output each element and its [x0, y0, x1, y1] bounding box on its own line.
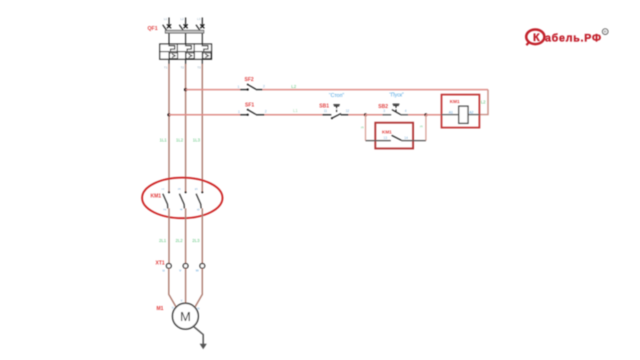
- SB2 plunger head: [393, 104, 400, 105]
- QF1 release box divider 1: [176, 44, 178, 59]
- ground wire from motor: [193, 326, 203, 344]
- svg-text:T3: T3: [197, 66, 201, 70]
- QF1 thermal release pole 2: [186, 44, 192, 52]
- SF1 blade: [248, 110, 256, 115]
- SB1 blade: [332, 114, 341, 119]
- logo registered trademark symbol: [602, 29, 608, 35]
- QF1 pole 2 wire inside box: [185, 52, 187, 60]
- svg-text:1: 1: [161, 188, 165, 190]
- svg-text:12: 12: [346, 109, 350, 113]
- self-hold branch right vertical wire: [425, 115, 427, 141]
- control wire SB2 to node D: [408, 114, 426, 116]
- QF1 release box divider 2: [193, 44, 195, 59]
- svg-text:SF1: SF1: [245, 103, 254, 109]
- control wire SF1 to SB1: [265, 114, 323, 116]
- QF1 magnetic release box pole 2: [186, 53, 194, 59]
- svg-text:2L1: 2L1: [159, 238, 167, 243]
- svg-text:XT1: XT1: [156, 261, 165, 267]
- node junction on phase B feeding coil line: [184, 88, 187, 91]
- svg-text:v: v: [181, 299, 183, 303]
- svg-text:w: w: [196, 268, 199, 273]
- node D junction dot: [424, 113, 427, 116]
- XT1 terminal 2: [183, 264, 188, 269]
- coil supply wire SF2 to right bend: [263, 89, 488, 91]
- highlight box around KM1 auxiliary contact: [375, 123, 413, 149]
- svg-text:1: 1: [238, 85, 240, 89]
- svg-text:14: 14: [404, 136, 408, 140]
- wire phase C vertical from QF1 to KM1 contact: [201, 64, 203, 192]
- svg-text:3: 3: [383, 109, 385, 113]
- QF1 magnetic release box pole 1: [169, 53, 177, 59]
- QF1 pole 1 contact x mark: [167, 24, 171, 28]
- SB2 left lead: [382, 114, 391, 116]
- svg-text:R: R: [604, 29, 607, 34]
- svg-text:1L2: 1L2: [176, 138, 184, 143]
- svg-text:1: 1: [238, 110, 240, 114]
- QF1 pole 1 blade: [163, 25, 170, 34]
- contactor coil KM1 body: [459, 106, 468, 123]
- wire phase A from XT1 to motor: [169, 268, 176, 306]
- QF1 pole 2 top stub: [185, 18, 187, 26]
- aux contact left lead: [366, 140, 391, 142]
- QF1 pole 1 top stub: [168, 18, 170, 26]
- QF1 pole 3 blade: [196, 25, 203, 34]
- logo Kabel.rf swirl ring: [526, 30, 544, 46]
- SB1 left lead: [322, 114, 331, 116]
- svg-text:T1: T1: [164, 66, 168, 70]
- svg-text:К: К: [533, 32, 540, 44]
- QF1 pole 2 contact x mark: [184, 24, 188, 28]
- QF1 pole 1 wire inside box: [168, 52, 170, 60]
- QF1 thermal release pole 1: [169, 44, 175, 52]
- wire phase B from KM1 contact to XT1: [185, 208, 187, 263]
- svg-text:4: 4: [180, 209, 184, 211]
- svg-text:L2: L2: [291, 84, 296, 89]
- svg-text:3: 3: [178, 188, 182, 190]
- svg-text:KM1: KM1: [382, 129, 392, 134]
- svg-text:M: M: [180, 309, 191, 324]
- SF2 left lead: [240, 89, 248, 91]
- aux contact blade: [392, 135, 402, 140]
- SF2 blade: [248, 85, 256, 90]
- SF1 blade tip dot: [247, 109, 249, 111]
- wire phase A from KM1 contact to XT1: [168, 208, 170, 263]
- QF1 pole 3 bottom stub: [201, 59, 203, 64]
- QF1 pole 3 contact x mark: [200, 24, 204, 28]
- svg-text:KM1: KM1: [450, 99, 460, 104]
- svg-text:11: 11: [324, 109, 328, 113]
- highlight box around contactor coil KM1: [442, 95, 480, 128]
- SF2 right lead: [256, 89, 263, 91]
- SB1 plunger head: [333, 105, 339, 106]
- svg-text:L1: L1: [164, 17, 168, 21]
- svg-text:абель.РФ: абель.РФ: [545, 32, 601, 44]
- svg-text:KM1: KM1: [151, 194, 162, 200]
- coil supply wire from node B to SF2: [186, 89, 240, 91]
- SF1 left lead: [240, 114, 248, 116]
- coil right lead: [468, 114, 479, 116]
- svg-text:L2: L2: [481, 99, 486, 104]
- SB2 right lead: [401, 114, 409, 116]
- wire phase C from KM1 contact to XT1: [201, 208, 203, 263]
- svg-text:SF2: SF2: [245, 77, 254, 83]
- KM1 main contact pole 1 blade: [163, 194, 168, 209]
- svg-text:L2: L2: [180, 17, 184, 21]
- node junction on phase A feeding control line: [167, 113, 170, 116]
- svg-text:3: 3: [360, 127, 364, 129]
- QF1 magnetic release arrow pole 3: [205, 54, 208, 57]
- QF1 pole 3 wire inside box: [201, 52, 203, 60]
- wire phase C from XT1 to motor: [195, 268, 202, 306]
- QF1 magnetic release arrow pole 1: [172, 54, 175, 57]
- SF2 fixed contact dot: [247, 88, 249, 90]
- QF1 release box middle line: [160, 51, 212, 53]
- svg-text:1L3: 1L3: [193, 138, 201, 143]
- control wire from node A to SF1: [169, 114, 240, 116]
- svg-text:L1: L1: [293, 108, 298, 113]
- QF1 pole 2 blade: [179, 25, 186, 34]
- QF1 thermal release pole 3: [202, 44, 208, 52]
- svg-text:M1: M1: [157, 306, 164, 312]
- svg-text:2: 2: [265, 110, 267, 114]
- node C junction dot: [364, 113, 367, 116]
- svg-text:T2: T2: [181, 66, 185, 70]
- svg-text:5: 5: [194, 188, 198, 190]
- aux contact right lead: [401, 140, 426, 142]
- QF1 pole 2 bottom stub: [185, 59, 187, 64]
- svg-text:QF1: QF1: [148, 26, 158, 32]
- SF2 blade tip dot: [247, 84, 249, 86]
- QF1 pole 1 wire to box: [168, 34, 170, 44]
- XT1 terminal 1: [166, 264, 171, 269]
- QF1 pole 3 wire to box: [201, 34, 203, 44]
- KM1 main contact pole 1 fixed dot: [168, 191, 170, 193]
- control wire node D to coil box: [426, 114, 442, 116]
- KM1 main contact pole 2 fixed dot: [185, 191, 187, 193]
- self-hold branch left vertical wire: [365, 115, 367, 141]
- KM1 main contact pole 3 blade: [196, 194, 201, 209]
- svg-text:A1: A1: [449, 110, 453, 114]
- coil supply wire right vertical drop: [479, 90, 488, 115]
- SF1 fixed contact dot: [247, 114, 249, 116]
- svg-text:w: w: [197, 307, 200, 311]
- motor M1 body: [173, 303, 199, 329]
- svg-text:A2: A2: [469, 110, 473, 114]
- svg-text:6: 6: [196, 209, 200, 211]
- svg-text:1L1: 1L1: [160, 138, 168, 143]
- svg-text:3: 3: [419, 126, 423, 128]
- wire phase B from XT1 to motor: [185, 268, 187, 303]
- SB2 plunger stem: [395, 106, 397, 113]
- SB2 blade: [392, 110, 401, 115]
- control wire node C to SB2: [366, 114, 383, 116]
- QF1 mechanical tie bar: [165, 30, 204, 33]
- svg-text:4: 4: [405, 109, 407, 113]
- SB1 plunger stem: [336, 106, 338, 113]
- SF1 right lead: [256, 114, 265, 116]
- svg-text:“Стоп”: “Стоп”: [329, 93, 344, 99]
- svg-text:2L2: 2L2: [176, 238, 184, 243]
- svg-text:2: 2: [163, 209, 167, 211]
- wire phase A vertical from QF1 to KM1 contact: [168, 64, 170, 192]
- XT1 terminal 3: [200, 264, 205, 269]
- svg-text:L3: L3: [197, 17, 201, 21]
- QF1 pole 3 top stub: [201, 18, 203, 26]
- QF1 pole 2 wire to box: [185, 34, 187, 44]
- control wire SB1 to node C: [349, 114, 366, 116]
- svg-text:13: 13: [384, 136, 388, 140]
- QF1 pole 1 bottom stub: [168, 59, 170, 64]
- svg-text:u: u: [172, 306, 174, 310]
- QF1 magnetic release box pole 3: [203, 53, 211, 59]
- coil left lead: [442, 114, 459, 116]
- ground arrow symbol: [200, 344, 207, 349]
- KM1 main contact pole 2 blade: [179, 194, 184, 209]
- KM1 main contact pole 3 fixed dot: [201, 191, 203, 193]
- svg-text:v: v: [179, 268, 181, 273]
- svg-text:u: u: [163, 268, 165, 273]
- svg-text:2L3: 2L3: [192, 238, 200, 243]
- SB1 blade pivot dot: [331, 117, 333, 119]
- SB1 right lead: [341, 114, 349, 116]
- wire phase B vertical from QF1 to KM1 contact: [185, 64, 187, 192]
- QF1 release box outline: [160, 44, 212, 59]
- svg-text:2: 2: [263, 85, 265, 89]
- svg-text:“Пуск”: “Пуск”: [389, 93, 404, 99]
- QF1 magnetic release arrow pole 2: [189, 54, 192, 57]
- highlight ellipse around contactor KM1 main contacts: [142, 178, 222, 219]
